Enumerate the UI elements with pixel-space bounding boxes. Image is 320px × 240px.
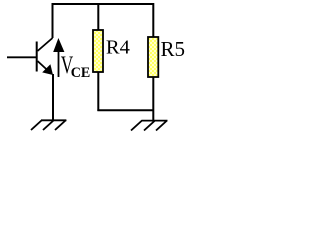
wire emitter down <box>52 74 54 120</box>
wire top rail with corner drops <box>53 4 154 38</box>
ground right <box>131 121 168 131</box>
wire R4 bottom lead <box>97 72 99 111</box>
V_CE annotation arrow <box>53 38 64 77</box>
svg-text:R5: R5 <box>161 37 186 61</box>
svg-text:R4: R4 <box>106 37 130 59</box>
wire R5 bottom lead <box>152 77 154 120</box>
label VCE <box>61 52 91 81</box>
resistor R5 <box>148 37 158 77</box>
wire R4 top lead <box>97 4 99 31</box>
transistor Q1 <box>7 38 53 75</box>
resistor R4 <box>93 30 103 72</box>
ground left <box>31 120 66 130</box>
wire bottom horizontal <box>97 109 153 111</box>
svg-text:CE: CE <box>71 65 91 81</box>
